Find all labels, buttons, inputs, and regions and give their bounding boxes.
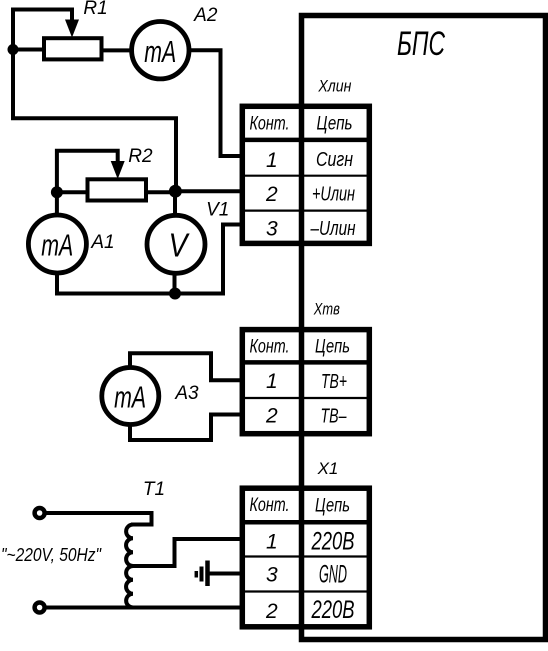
node at R2 right bbox=[169, 185, 182, 198]
resistor R2 bbox=[57, 146, 153, 201]
wire A2 to pin 1 Хлин bbox=[190, 50, 242, 156]
svg-text:Сигн: Сигн bbox=[316, 149, 353, 171]
wire R2 node down to A1 bbox=[55, 192, 59, 213]
svg-text:1: 1 bbox=[266, 149, 278, 172]
svg-text:Цепь: Цепь bbox=[315, 337, 350, 358]
wire A3 top to pin 1 Хтв bbox=[130, 353, 242, 380]
connector Хтв table bbox=[242, 330, 369, 434]
wire ground to pin 3 X1 bbox=[210, 572, 243, 576]
svg-text:X1: X1 bbox=[317, 459, 339, 478]
svg-text:+Uлин: +Uлин bbox=[312, 184, 355, 206]
svg-text:БПС: БПС bbox=[397, 25, 445, 63]
bottom wire to pin 3 Хлин bbox=[57, 225, 242, 294]
svg-text:V: V bbox=[169, 227, 191, 264]
wire R1 to A2 bbox=[104, 48, 133, 52]
БПС box U1 bbox=[302, 16, 546, 640]
node at R1 left bbox=[8, 44, 19, 55]
svg-text:mA: mA bbox=[41, 228, 73, 263]
node at V1 bottom bbox=[169, 288, 181, 300]
svg-text:Хлин: Хлин bbox=[318, 77, 352, 96]
svg-text:R2: R2 bbox=[128, 146, 153, 167]
wire R2 right to node bbox=[147, 190, 176, 194]
wire bottom 220V to pin 2 X1 bbox=[45, 606, 242, 610]
svg-text:GND: GND bbox=[319, 561, 347, 589]
svg-text:1: 1 bbox=[266, 531, 278, 554]
svg-text:A1: A1 bbox=[90, 232, 114, 253]
svg-text:220В: 220В bbox=[311, 528, 355, 556]
svg-text:1: 1 bbox=[266, 370, 278, 393]
svg-text:A3: A3 bbox=[174, 383, 199, 404]
svg-text:–Uлин: –Uлин bbox=[310, 218, 356, 240]
svg-text:T1: T1 bbox=[143, 479, 165, 500]
svg-text:"~220V, 50Hz": "~220V, 50Hz" bbox=[1, 545, 102, 565]
ammeter A2 bbox=[132, 5, 218, 79]
svg-text:2: 2 bbox=[265, 600, 278, 623]
connector X1 table bbox=[242, 488, 369, 627]
wire R1 node down to R2 node bbox=[13, 50, 176, 191]
svg-text:Цепь: Цепь bbox=[317, 114, 353, 135]
svg-text:Конт.: Конт. bbox=[250, 337, 290, 358]
svg-text:ТВ–: ТВ– bbox=[321, 406, 348, 428]
wire V1 bottom bbox=[173, 273, 177, 294]
svg-text:R1: R1 bbox=[83, 0, 107, 19]
resistor R1 bbox=[13, 0, 108, 59]
transformer T1 bbox=[47, 479, 166, 608]
svg-text:Конт.: Конт. bbox=[250, 495, 290, 516]
wire A1 bottom bbox=[55, 275, 59, 294]
ammeter A3 bbox=[102, 368, 199, 425]
svg-text:ТВ+: ТВ+ bbox=[321, 371, 347, 393]
svg-text:2: 2 bbox=[265, 183, 278, 206]
svg-text:V1: V1 bbox=[206, 200, 229, 221]
wire node down to V1 bbox=[173, 191, 177, 215]
svg-text:Хтв: Хтв bbox=[313, 300, 340, 319]
terminal 220V top bbox=[35, 508, 45, 518]
connector Хлин table bbox=[242, 106, 369, 243]
wire A3 bottom to pin 2 Хтв bbox=[130, 415, 242, 441]
ground bbox=[196, 561, 207, 587]
svg-text:mA: mA bbox=[114, 380, 146, 415]
wire node to R2 left bbox=[57, 190, 85, 194]
wire node to pin 2 Хлин bbox=[175, 189, 242, 193]
svg-text:Конт.: Конт. bbox=[250, 114, 290, 135]
svg-text:A2: A2 bbox=[193, 5, 218, 26]
wire node to R1 bbox=[13, 48, 44, 52]
wire T1 tap to pin 1 X1 bbox=[133, 539, 242, 566]
svg-text:3: 3 bbox=[266, 218, 278, 241]
node at R2 left bbox=[51, 186, 63, 198]
ammeter A1 bbox=[28, 215, 114, 273]
svg-text:3: 3 bbox=[266, 564, 278, 587]
svg-text:2: 2 bbox=[265, 405, 278, 428]
svg-text:mA: mA bbox=[144, 34, 176, 69]
svg-text:Цепь: Цепь bbox=[315, 496, 350, 517]
voltmeter V1 bbox=[147, 200, 229, 274]
svg-text:220В: 220В bbox=[311, 596, 355, 624]
terminal 220V bottom bbox=[35, 603, 45, 613]
